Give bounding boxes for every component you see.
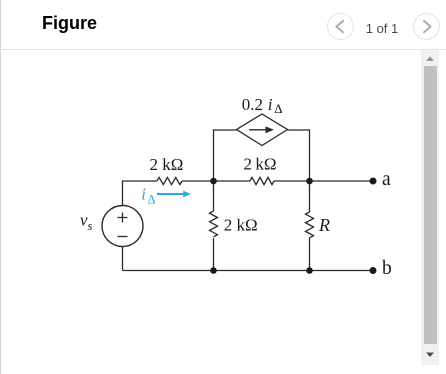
wire: R2 to node2 — [274, 180, 310, 182]
ia current arrow (cyan) — [157, 191, 191, 198]
svg-text:2 kΩ: 2 kΩ — [244, 155, 277, 174]
node n2 junction dot — [306, 178, 313, 185]
wire: bottom rail — [123, 270, 374, 272]
wire: node1 to R2 — [214, 180, 251, 182]
dependent source U1 diamond — [237, 114, 288, 146]
wire: R1 to node1 — [182, 180, 214, 182]
svg-text:Δ: Δ — [274, 101, 282, 116]
header divider — [0, 49, 446, 50]
nav prev button — [327, 13, 354, 40]
terminal a dot — [370, 178, 377, 185]
svg-text:i: i — [141, 185, 146, 204]
vs minus sign — [118, 236, 128, 238]
scrollbar thumb — [424, 66, 437, 344]
svg-text:i: i — [268, 95, 273, 114]
resistor R4 R vertical zigzag — [306, 212, 314, 238]
node n3 junction dot — [210, 267, 217, 274]
wire: node2 to terminal a — [310, 180, 374, 182]
resistor R3 2 kOhm vertical zigzag — [210, 211, 218, 237]
wire: top rail left segment — [123, 181, 158, 206]
nav label 1 of 1 — [362, 22, 402, 35]
resistor R2 2 kOhm horizontal zigzag — [250, 177, 274, 184]
wire: node2 down to R4 — [309, 181, 311, 212]
scrollbar down arrow — [421, 348, 439, 364]
wire: top branch right vertical — [288, 130, 310, 181]
svg-text:b: b — [382, 258, 392, 279]
wire: R3 to bottom rail — [213, 238, 215, 271]
wire: R4 to bottom rail — [309, 238, 311, 271]
svg-text:0.2: 0.2 — [242, 95, 263, 114]
svg-text:2 kΩ: 2 kΩ — [150, 155, 184, 174]
vs plus sign — [118, 213, 128, 223]
resistor R1 2 kOhm horizontal zigzag — [157, 177, 182, 184]
wire: node1 down to R3 — [213, 181, 215, 211]
wire: top branch left vertical — [214, 130, 237, 181]
scrollbar up arrow — [421, 50, 439, 66]
svg-text:2 kΩ: 2 kΩ — [224, 216, 258, 235]
svg-text:a: a — [382, 169, 391, 190]
svg-text:vs: vs — [80, 211, 93, 234]
node n1 junction dot — [210, 178, 217, 185]
voltage source VS circle — [102, 206, 143, 247]
terminal b dot — [370, 267, 377, 274]
node n4 junction dot — [306, 267, 313, 274]
arrow inside diamond — [249, 126, 274, 133]
wire: vs bottom to bottom rail — [122, 247, 124, 271]
left panel border — [0, 0, 1, 374]
header title — [42, 14, 97, 32]
svg-text:Δ: Δ — [148, 193, 156, 207]
scrollbar track — [421, 50, 439, 365]
nav next button — [413, 13, 440, 40]
svg-text:R: R — [318, 215, 330, 235]
